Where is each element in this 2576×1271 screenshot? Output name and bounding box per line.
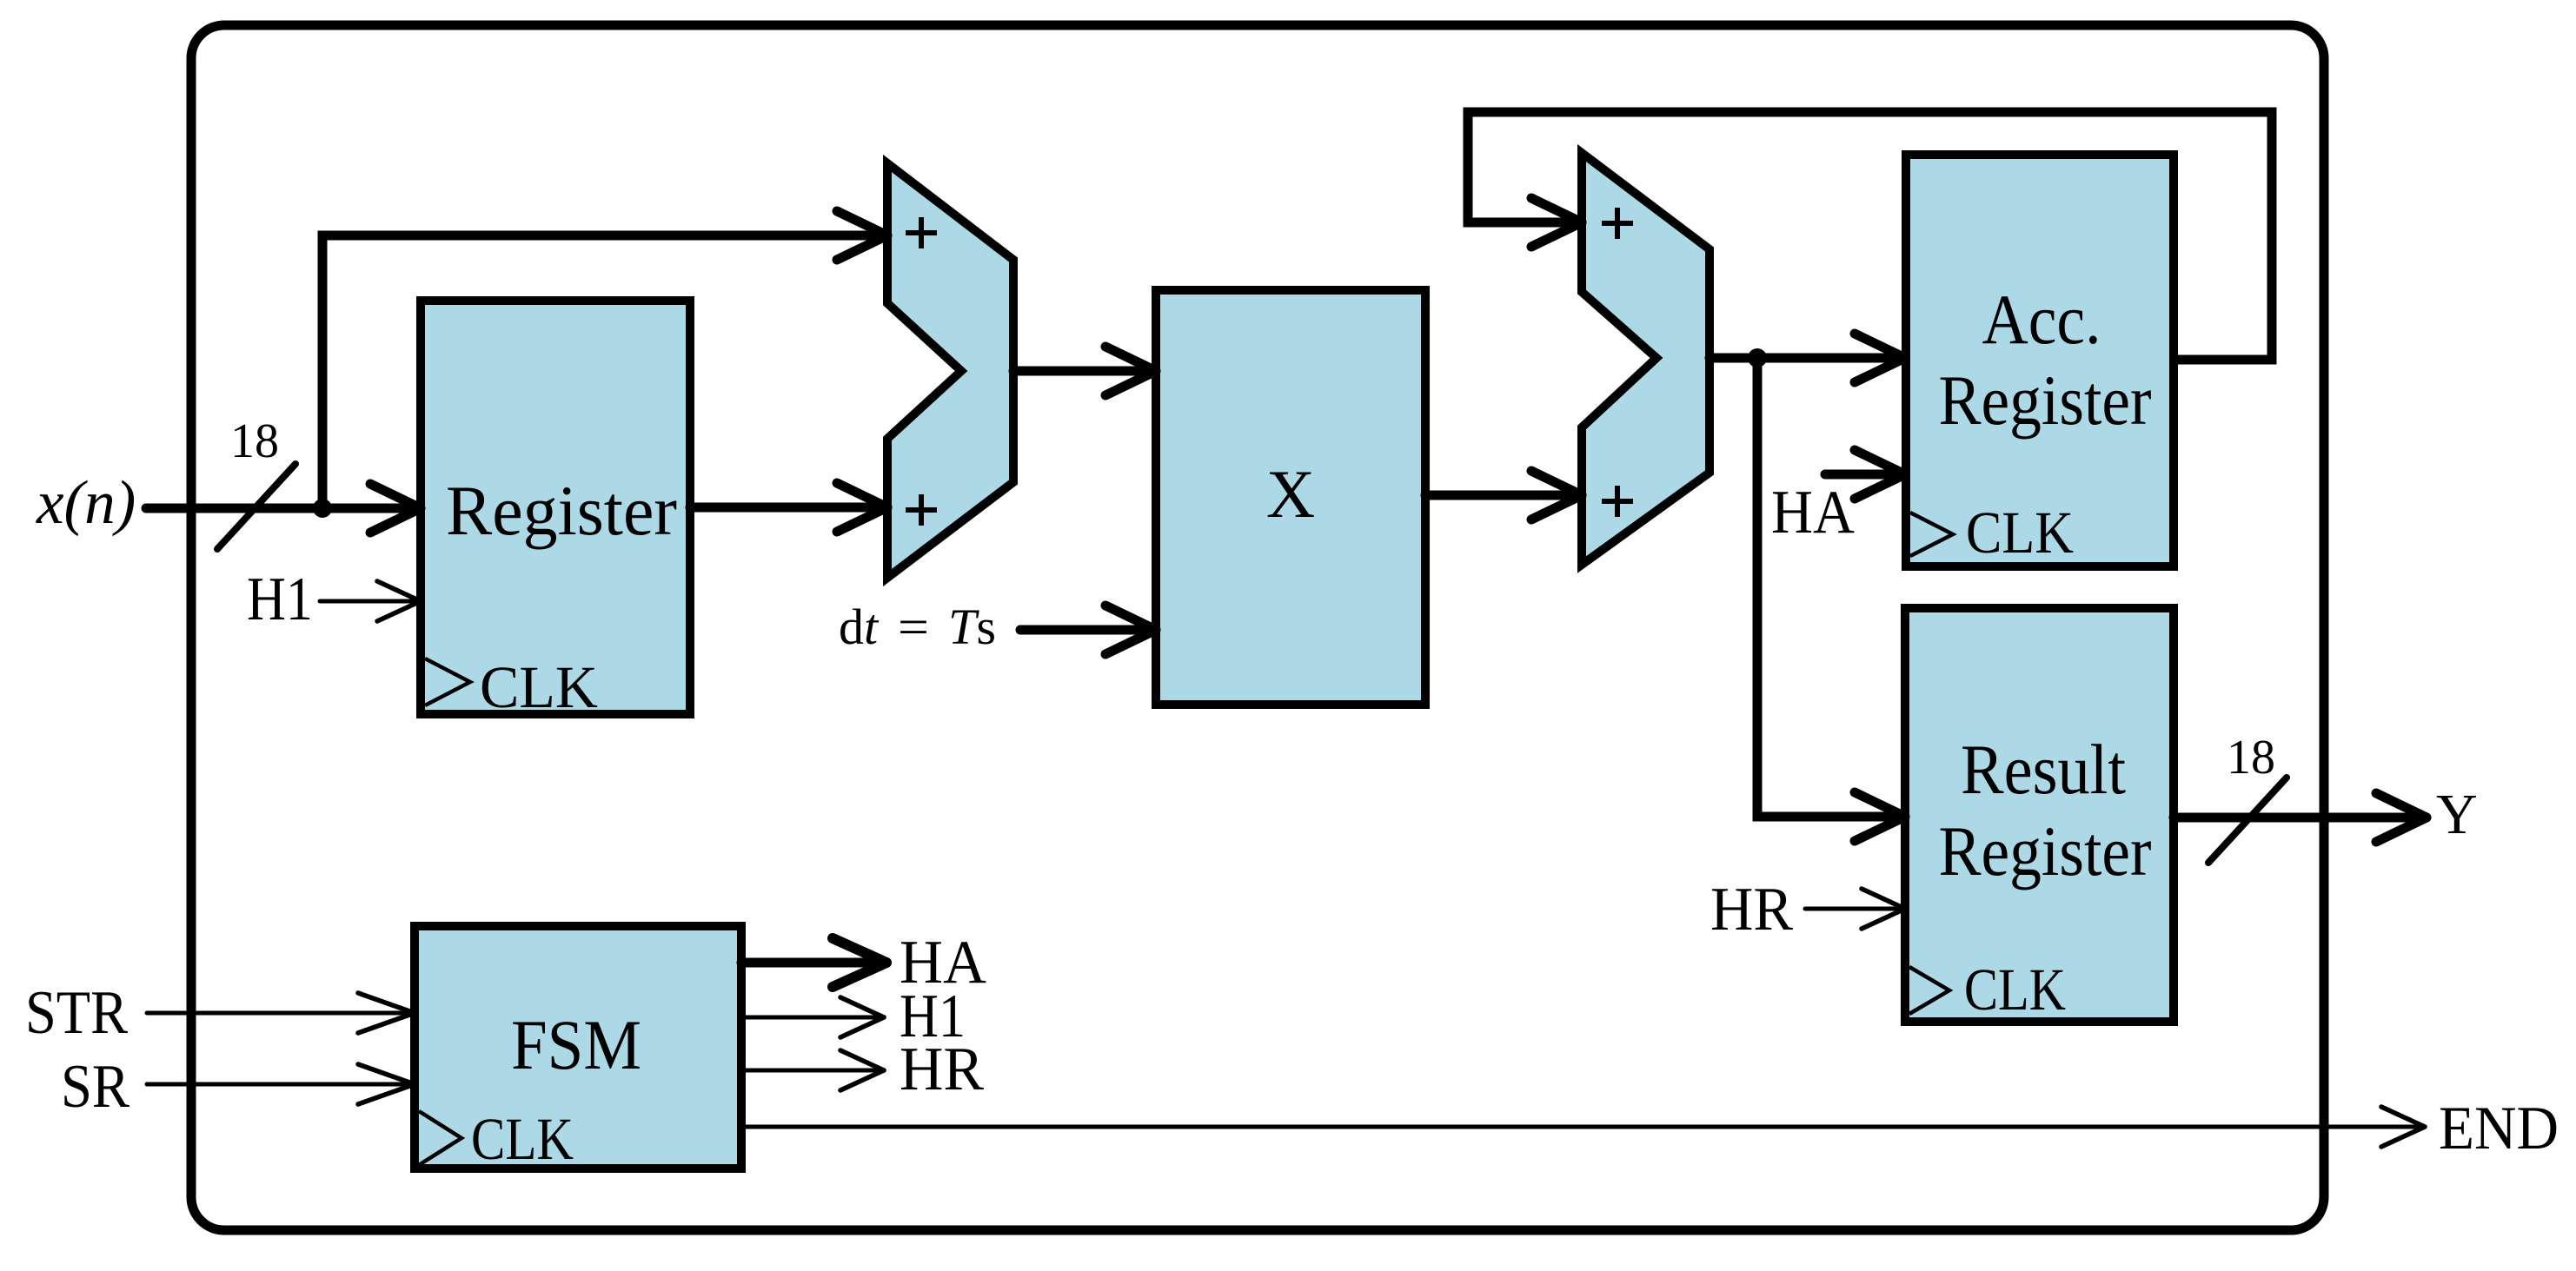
wire H1 output of FSM bbox=[741, 997, 884, 1037]
clock wedge of accumulator register bbox=[1910, 513, 1953, 556]
wire adder A1 output to multiplier U1 bbox=[1013, 347, 1156, 395]
enclosure border bbox=[191, 25, 2324, 1230]
label HR FSM output bbox=[900, 1036, 985, 1103]
adder A2 bbox=[1582, 153, 1710, 565]
wire accumulator feedback to adder A2 upper input bbox=[1468, 112, 2272, 360]
label Y output signal bbox=[2436, 783, 2478, 846]
wire adder A2 output to accumulator register bbox=[1710, 334, 1905, 382]
wire SR input to FSM bbox=[147, 1064, 415, 1104]
label CLK on register R1 bbox=[480, 654, 598, 720]
label H1 at register R1 bbox=[247, 566, 313, 633]
register R1 bbox=[421, 301, 690, 714]
svg-text:X: X bbox=[1266, 456, 1315, 532]
svg-text:CLK: CLK bbox=[1966, 500, 2074, 566]
label SR input signal bbox=[61, 1053, 130, 1121]
clock wedge of register R1 bbox=[425, 659, 470, 705]
adder A1 bbox=[887, 163, 1013, 578]
svg-text:HR: HR bbox=[900, 1036, 985, 1103]
svg-text:Result: Result bbox=[1961, 730, 2126, 809]
label H1 FSM output bbox=[900, 983, 966, 1050]
label END output signal bbox=[2439, 1095, 2559, 1162]
svg-text:Acc.: Acc. bbox=[1982, 280, 2101, 359]
wire HR enable into result register bbox=[1805, 889, 1905, 929]
svg-text:Y: Y bbox=[2436, 783, 2478, 846]
svg-text:SR: SR bbox=[61, 1053, 130, 1121]
label CLK on FSM bbox=[471, 1106, 574, 1172]
plus sign A2 upper input bbox=[1602, 208, 1633, 239]
svg-text:HR: HR bbox=[1710, 876, 1794, 943]
wire HA output of FSM bbox=[741, 938, 886, 987]
label HA at accumulator register bbox=[1771, 479, 1855, 546]
wire register R1 output to adder A1 lower input bbox=[690, 483, 887, 532]
wire x(n) branch to adder A1 upper input bbox=[322, 211, 887, 508]
bus-width slash 18 on x(n) bbox=[217, 464, 295, 549]
svg-text:=: = bbox=[898, 599, 929, 655]
label CLK on result register bbox=[1964, 957, 2066, 1023]
label Register on result register bbox=[1939, 811, 2152, 890]
plus sign A2 lower input bbox=[1602, 486, 1633, 517]
wire END output of FSM bbox=[741, 1107, 2425, 1147]
wire dt=Ts input to multiplier U1 bbox=[1020, 606, 1156, 654]
label STR input signal bbox=[25, 979, 129, 1047]
svg-text:STR: STR bbox=[25, 979, 129, 1047]
svg-text:END: END bbox=[2439, 1095, 2559, 1162]
label 18 bus width on x(n) bbox=[230, 414, 279, 468]
label Result on result register bbox=[1961, 730, 2126, 809]
svg-text:H1: H1 bbox=[247, 566, 313, 633]
wire H1 enable into register R1 bbox=[320, 581, 421, 621]
clock wedge of result register bbox=[1909, 967, 1949, 1014]
wire branch from J2 down to result register bbox=[1757, 358, 1905, 841]
label Acc. on accumulator register bbox=[1982, 280, 2101, 359]
plus sign A1 upper input bbox=[906, 217, 937, 248]
node J1 x(n) branch junction bbox=[313, 499, 332, 518]
plus sign A1 lower input bbox=[906, 494, 937, 526]
accumulator register R2 (Acc. Register) bbox=[1906, 155, 2174, 566]
label FSM on controller bbox=[511, 1005, 641, 1084]
svg-text:Register: Register bbox=[446, 471, 677, 550]
svg-text:Register: Register bbox=[1939, 811, 2152, 890]
wire STR input to FSM bbox=[147, 993, 415, 1033]
label Register on accumulator register bbox=[1939, 361, 2152, 440]
svg-text:FSM: FSM bbox=[511, 1005, 641, 1084]
svg-text:18: 18 bbox=[230, 414, 279, 468]
svg-text:Register: Register bbox=[1939, 361, 2152, 440]
FSM controller U2 bbox=[415, 926, 741, 1168]
svg-text:CLK: CLK bbox=[1964, 957, 2066, 1023]
svg-text:CLK: CLK bbox=[480, 654, 598, 720]
wire Y output from result register bbox=[2174, 793, 2427, 842]
label X on multiplier bbox=[1266, 456, 1315, 532]
label CLK on accumulator register bbox=[1966, 500, 2074, 566]
label dt = Ts multiplier constant bbox=[839, 599, 996, 655]
bus-width slash 18 on Y bbox=[2208, 778, 2287, 863]
node J2 accumulator input junction bbox=[1748, 348, 1767, 367]
label 18 bus width on Y bbox=[2227, 731, 2275, 784]
label HA FSM output bbox=[900, 929, 986, 996]
wire multiplier U1 output to adder A2 lower input bbox=[1425, 471, 1582, 520]
wire x(n) input to register R1 bbox=[146, 484, 421, 533]
svg-text:Ts: Ts bbox=[948, 599, 996, 655]
svg-text:dt: dt bbox=[839, 599, 880, 655]
multiplier U1 (X) bbox=[1156, 290, 1425, 705]
label x(n) input signal bbox=[36, 469, 136, 537]
label Register on R1 bbox=[446, 471, 677, 550]
wire HA enable into accumulator register bbox=[1825, 450, 1905, 499]
label HR at result register bbox=[1710, 876, 1794, 943]
svg-text:CLK: CLK bbox=[471, 1106, 574, 1172]
svg-text:HA: HA bbox=[1771, 479, 1855, 546]
clock wedge of FSM bbox=[419, 1111, 461, 1165]
result register R3 (Result Register) bbox=[1905, 608, 2174, 1022]
svg-text:x(n): x(n) bbox=[36, 469, 136, 537]
wire HR output of FSM bbox=[741, 1050, 884, 1090]
svg-text:18: 18 bbox=[2227, 731, 2275, 784]
